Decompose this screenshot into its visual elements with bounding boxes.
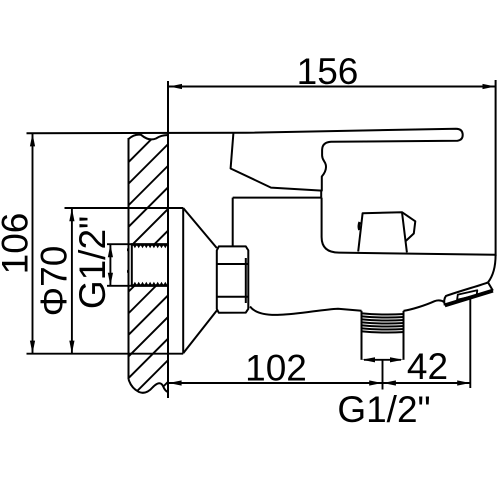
cap-to-neck joint edge xyxy=(320,191,322,198)
spout outlet top and left cap xyxy=(444,282,488,305)
wall pipe top edge xyxy=(131,243,168,246)
hex wall nut outline xyxy=(217,246,249,312)
wall pipe end xyxy=(131,244,133,286)
svg-text:G1/2": G1/2" xyxy=(72,216,113,309)
extension line 106 and Phi70 bottom / flange bottom edge xyxy=(27,353,184,355)
shower hose pipe left wall xyxy=(361,311,363,360)
hose pipe width dimension line xyxy=(364,359,401,361)
escutcheon cone upper slant xyxy=(183,208,217,248)
extension line Phi70 top / flange top edge xyxy=(65,207,184,209)
extension line 106 top / lever top line xyxy=(27,132,248,134)
svg-text:Φ70: Φ70 xyxy=(34,246,75,317)
extension line 156 right xyxy=(495,80,497,256)
spout outlet aerator slot xyxy=(457,290,477,299)
nut upper facet line xyxy=(217,263,249,265)
wall back edge xyxy=(128,138,130,379)
arrowheads hose pipe width xyxy=(362,357,403,362)
wall bottom break line xyxy=(129,379,168,393)
spout outlet right end face xyxy=(488,282,493,290)
extension line G1/2 top xyxy=(107,243,132,245)
escutcheon cone lower slant xyxy=(183,311,217,354)
wall face line / extension line xyxy=(167,81,169,398)
svg-text:156: 156 xyxy=(297,51,359,92)
svg-text:42: 42 xyxy=(407,346,448,387)
wall pipe thread teeth bottom xyxy=(133,282,167,285)
arrowheads 42 xyxy=(383,380,470,385)
escutcheon flange plate xyxy=(182,208,184,353)
svg-text:102: 102 xyxy=(245,348,307,389)
dimension line G1/2 wall pipe xyxy=(109,244,111,286)
body bottom right curve xyxy=(404,300,445,310)
diverter knob side tab xyxy=(402,212,415,241)
dimension line 102 and 42 xyxy=(168,382,470,384)
svg-text:G1/2": G1/2" xyxy=(337,389,430,430)
dimension line 106 xyxy=(32,133,34,353)
diverter knob left edge tick xyxy=(358,222,361,230)
cartridge neck ring top xyxy=(233,197,322,199)
body bottom left curve xyxy=(250,307,362,315)
wall pipe bottom edge xyxy=(131,284,168,287)
wall pipe thread teeth top xyxy=(133,245,167,248)
shower hose pipe thread ridges xyxy=(361,313,405,332)
extension line 42 right xyxy=(469,297,471,388)
arrowheads 156 xyxy=(169,84,496,89)
nut lower facet line xyxy=(217,296,249,298)
body right edge curve xyxy=(488,255,496,283)
svg-text:106: 106 xyxy=(0,213,36,275)
dimension line 156 xyxy=(169,86,496,88)
arrowheads 106 xyxy=(30,133,35,353)
spout outlet bottom thick edge xyxy=(445,291,493,306)
neck left edge xyxy=(232,198,234,247)
neck right edge with fillet to body xyxy=(322,198,339,253)
nut right facet edge xyxy=(245,258,247,303)
wall top break line xyxy=(129,135,168,140)
pipe centre extension line xyxy=(382,359,384,390)
arrowheads 102 xyxy=(169,380,383,385)
extension line G1/2 bottom xyxy=(107,285,132,287)
arrowheads Phi70 xyxy=(69,208,74,353)
arrowheads G1/2 wall pipe xyxy=(108,244,113,285)
wall section hatching xyxy=(126,123,168,467)
shower hose pipe right wall xyxy=(403,311,405,360)
body top line xyxy=(339,253,495,255)
diverter knob outline xyxy=(358,212,407,252)
dimension line Phi70 xyxy=(71,208,73,353)
handle cap and lever outline xyxy=(231,129,463,191)
